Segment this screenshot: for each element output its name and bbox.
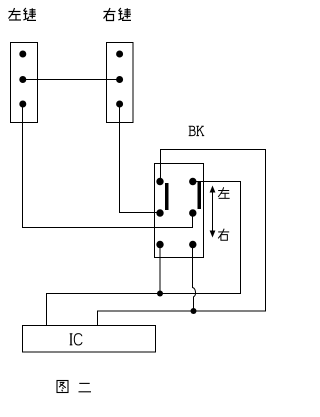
caption 图 二 (Figure 2) bbox=[57, 381, 91, 393]
wire J1.3 to BK pin B2 bbox=[23, 104, 193, 228]
J2 pin 1 bbox=[116, 51, 123, 58]
label 左 (up) bbox=[218, 187, 230, 198]
connector J1 left-button bbox=[11, 43, 38, 123]
label IC bbox=[70, 334, 82, 345]
node junction C2 bbox=[191, 308, 197, 314]
BK pin A2 bbox=[189, 178, 196, 185]
IC U1 body bbox=[23, 326, 156, 353]
BK pin B2 bbox=[189, 209, 196, 216]
node junction C1 bbox=[157, 291, 163, 297]
BK pin A1 bbox=[156, 178, 163, 185]
wire BK pin A1 to right bus and IC pin 2 bbox=[98, 150, 266, 326]
BK pin B1 bbox=[156, 209, 163, 216]
J1 pin 2 bbox=[19, 76, 26, 83]
J2 pin 3 bbox=[116, 101, 123, 108]
wire J2.3 to BK pin B1 bbox=[120, 104, 161, 213]
switch BK body bbox=[155, 164, 204, 258]
BK pin C1 bbox=[156, 241, 163, 248]
label BK bbox=[189, 126, 205, 135]
J1 pin 1 bbox=[19, 51, 26, 58]
wire BK pin C2 down with hop over bus bbox=[193, 245, 196, 312]
arrow 左/右 direction indicator bbox=[212, 191, 214, 233]
wire BK pin A2 to inner bus and IC pin 1 bbox=[47, 182, 241, 326]
BK pin C2 bbox=[189, 241, 196, 248]
label 右键 (right button) bbox=[104, 8, 132, 21]
BK contact bar left bbox=[165, 183, 169, 210]
label 右 (down) bbox=[218, 229, 229, 241]
wire J1.2 to J2.2 bbox=[23, 79, 120, 81]
connector J2 right-button bbox=[107, 43, 134, 123]
wire BK pin C1 down to node bbox=[159, 245, 161, 294]
J2 pin 2 bbox=[116, 76, 123, 83]
BK contact bar right bbox=[198, 182, 202, 209]
label 左键 (left button) bbox=[9, 8, 37, 20]
J1 pin 3 bbox=[19, 101, 26, 108]
